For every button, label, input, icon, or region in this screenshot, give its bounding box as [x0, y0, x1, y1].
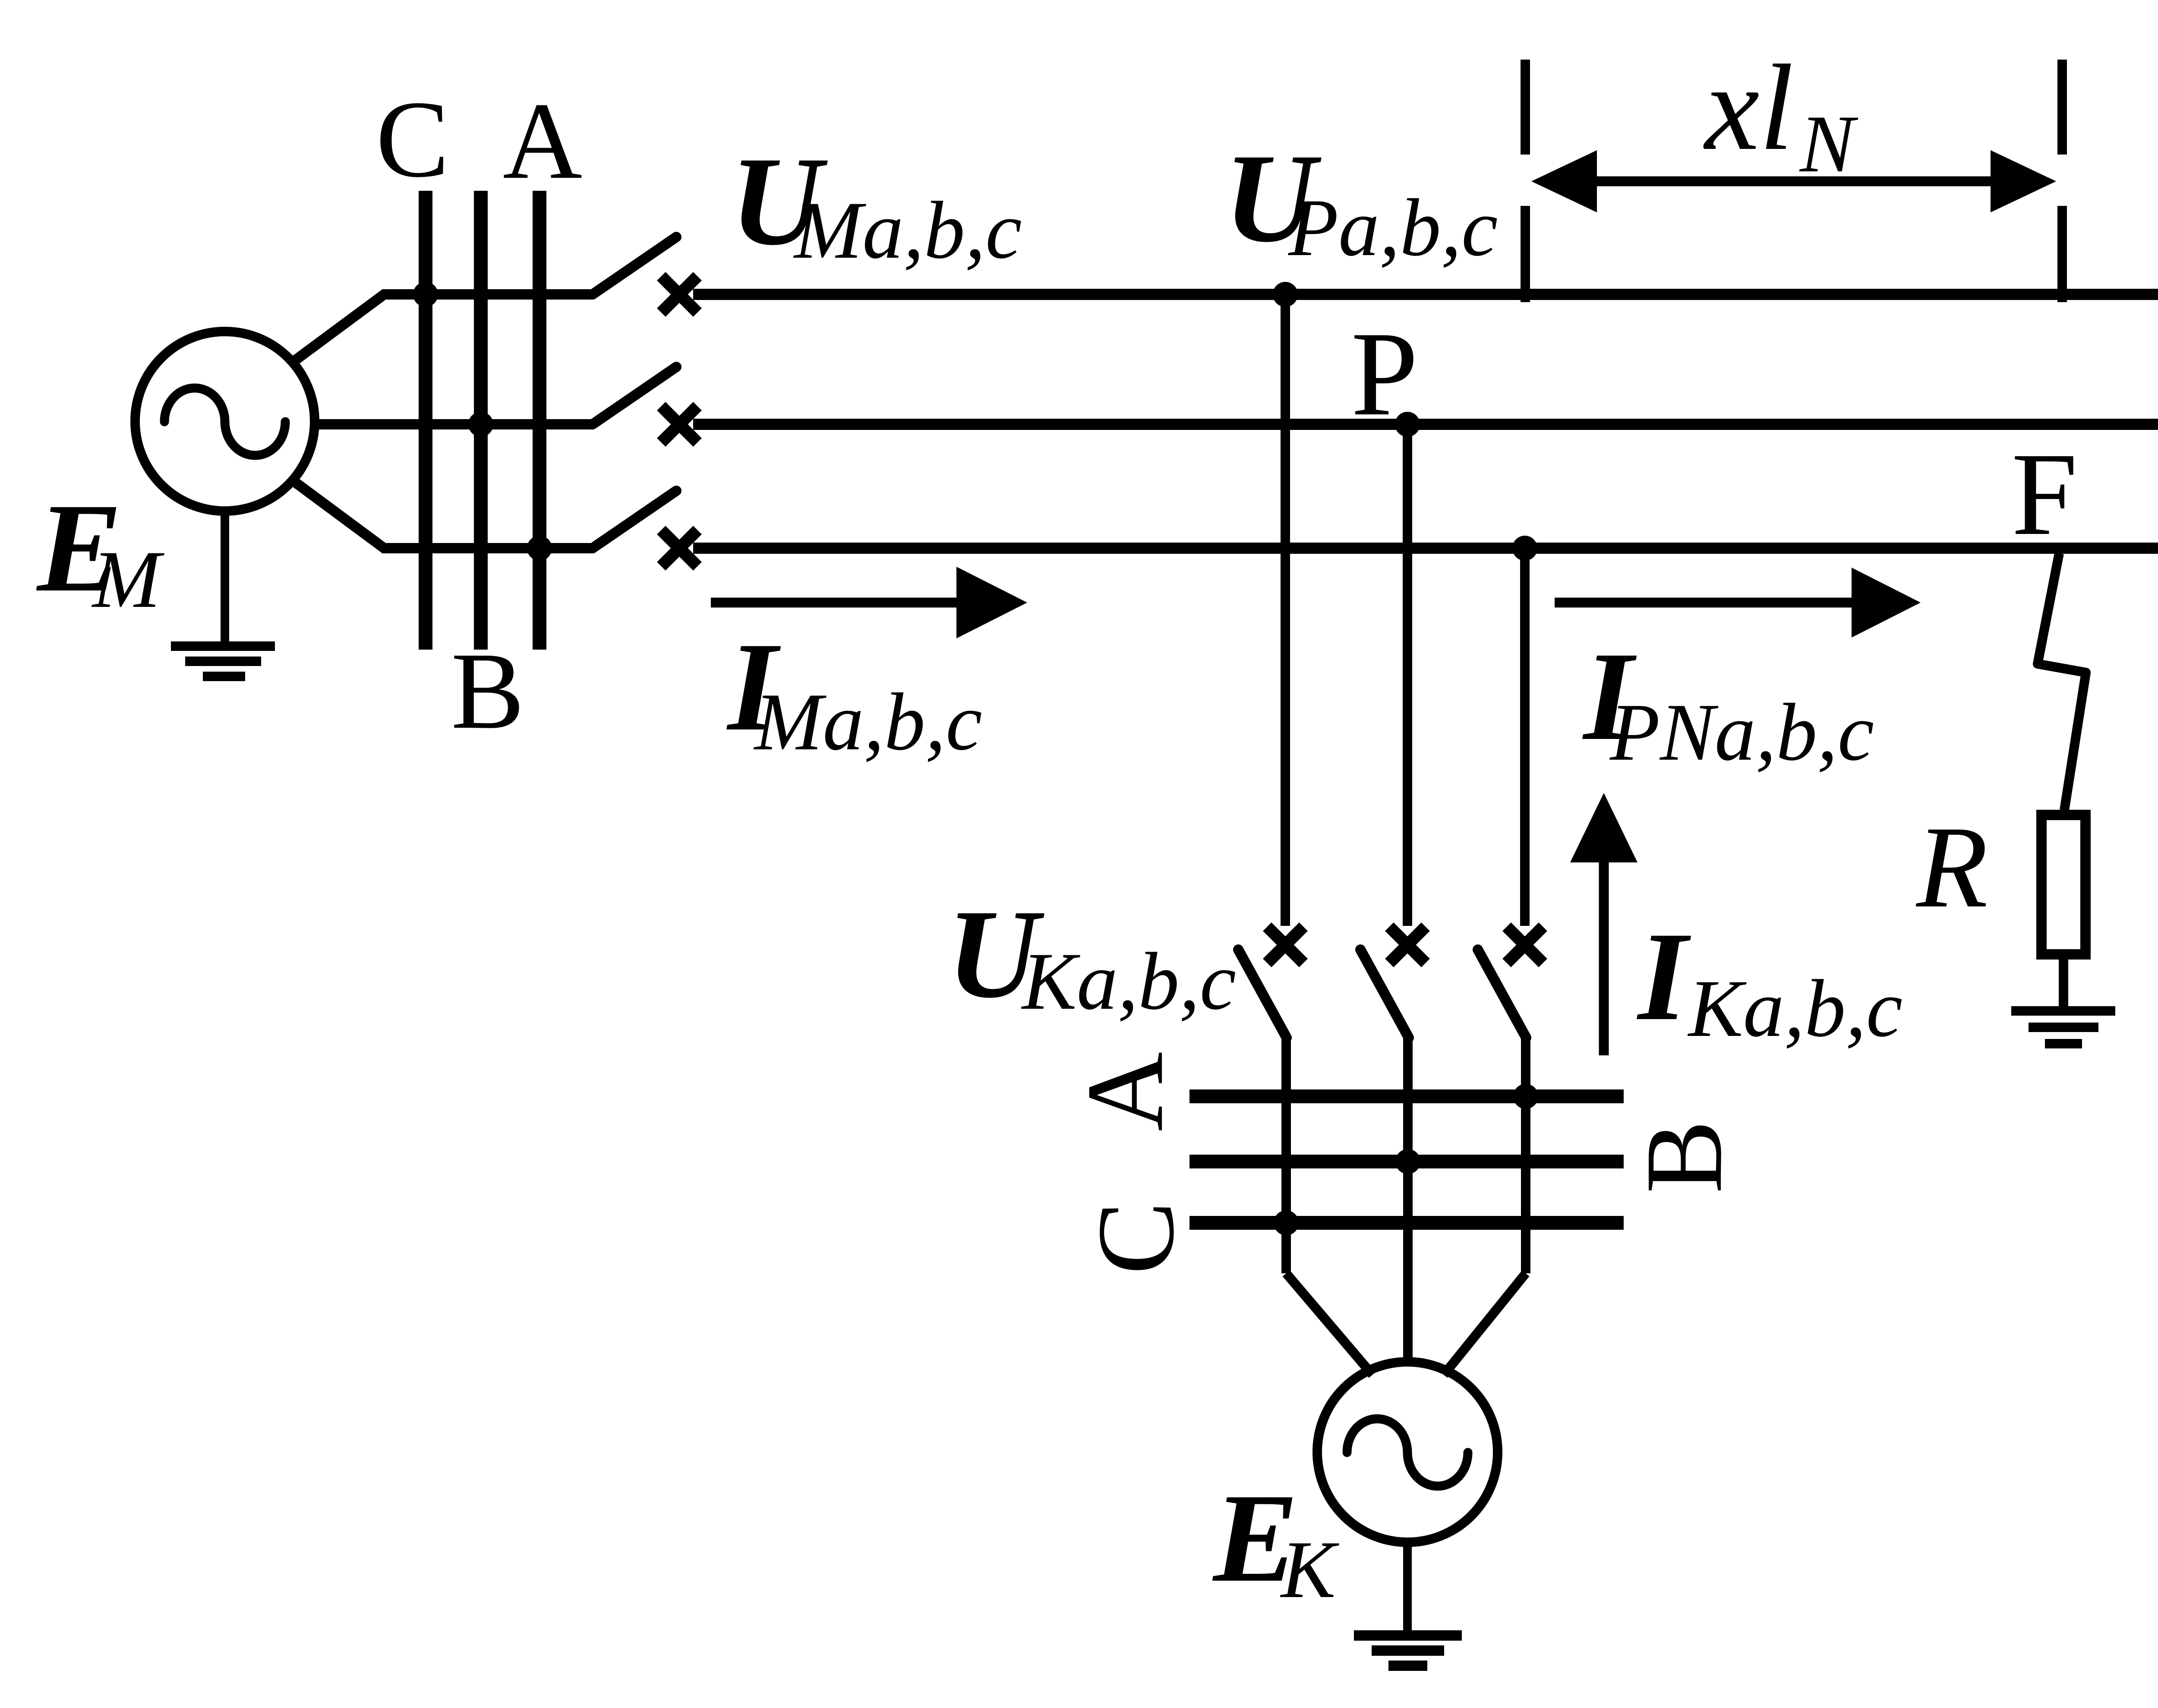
wire EM fan bottom: [289, 478, 593, 548]
switch blade Kb: [1360, 950, 1409, 1038]
node dot a-C (K): [1274, 1210, 1299, 1235]
wire phase a (M-N top line): [693, 289, 2158, 300]
arrow IMa,b,c: [711, 598, 962, 608]
breaker X Mb: [661, 406, 697, 442]
svg-text:Ma,b,c: Ma,b,c: [793, 185, 1022, 276]
svg-text:N: N: [1799, 99, 1858, 189]
ground EM stub: [221, 511, 229, 643]
busbar M middle: [474, 191, 488, 650]
switch blade Mc: [593, 491, 676, 548]
node dot P-c: [1512, 536, 1537, 561]
breaker X Ma: [661, 276, 697, 313]
svg-text:F: F: [2012, 429, 2078, 560]
breaker X Kc: [1507, 927, 1543, 963]
svg-text:B: B: [451, 630, 524, 752]
svg-text:Ka,b,c: Ka,b,c: [1687, 963, 1902, 1054]
wire Kb to K bus: [1403, 1038, 1413, 1366]
wire Ka to K bus: [1281, 1038, 1291, 1273]
ground EK bars: [1354, 1630, 1462, 1641]
wire phase c (M-N bottom line): [693, 543, 2158, 554]
wire Kc to K bus: [1521, 1038, 1530, 1273]
source EK circle: [1317, 1362, 1498, 1542]
ground EM bars: [171, 641, 275, 651]
busbar K C: [1189, 1216, 1624, 1230]
wire EK fan right: [1444, 1273, 1526, 1375]
svg-text:Ma,b,c: Ma,b,c: [753, 677, 982, 767]
dimension tick right (at F): [2057, 60, 2067, 155]
switch blade Kc: [1478, 950, 1526, 1038]
switch blade Ka: [1238, 950, 1287, 1038]
resistor R: [2041, 815, 2085, 954]
arrow IKa,b,c: [1599, 859, 1609, 1055]
node dot P-a: [1273, 282, 1298, 307]
wire EM fan top: [289, 294, 593, 365]
busbar M A: [533, 191, 546, 650]
ground R bars: [2011, 1006, 2115, 1016]
svg-text:A: A: [503, 80, 582, 202]
measurement branch vertical c (to K): [1520, 548, 1530, 926]
source EM circle: [135, 331, 315, 511]
ground EK stub: [1403, 1542, 1412, 1632]
svg-text:xl: xl: [1703, 39, 1794, 176]
svg-text:PNa,b,c: PNa,b,c: [1609, 687, 1874, 778]
wire EK fan left: [1286, 1273, 1372, 1375]
ground R stub: [2059, 954, 2068, 1007]
wire phase b (M-N middle line): [693, 419, 2158, 430]
svg-text:B: B: [1623, 1120, 1745, 1193]
node dot P-b: [1395, 412, 1420, 437]
busbar K A: [1189, 1089, 1624, 1103]
node dot c-A (K): [1513, 1084, 1538, 1109]
svg-text:C: C: [376, 79, 449, 200]
svg-text:P: P: [1351, 306, 1418, 441]
dimension arrow xlN: [1593, 177, 1996, 186]
switch blade Mb: [593, 367, 676, 424]
breaker X Kb: [1389, 927, 1426, 963]
svg-text:Ka,b,c: Ka,b,c: [1021, 936, 1236, 1027]
svg-text:A: A: [1064, 1052, 1186, 1131]
busbar M C: [419, 191, 432, 650]
svg-text:K: K: [1280, 1525, 1339, 1615]
source EK sine: [1347, 1419, 1468, 1486]
svg-text:C: C: [1075, 1201, 1197, 1275]
node dot c-A (M): [527, 536, 552, 561]
source EM sine: [164, 388, 285, 455]
svg-text:M: M: [91, 534, 164, 625]
arrow IPNa,b,c: [1555, 598, 1860, 608]
svg-text:I: I: [1636, 906, 1691, 1047]
measurement branch vertical b (to K): [1403, 424, 1412, 926]
switch blade Ma: [593, 237, 676, 294]
svg-text:R: R: [1915, 802, 1988, 932]
busbar K B: [1189, 1155, 1624, 1168]
breaker X Ka: [1267, 927, 1303, 963]
node dot b-B (K): [1395, 1149, 1420, 1174]
wire EM fan middle: [313, 419, 593, 429]
fault zigzag: [2038, 553, 2086, 810]
svg-text:Pa,b,c: Pa,b,c: [1287, 183, 1498, 273]
node dot a-C (M): [413, 282, 438, 307]
node dot b-B (M): [468, 412, 493, 437]
breaker X Mc: [661, 530, 697, 566]
dimension tick left (at P branch): [1521, 60, 1530, 155]
measurement branch vertical a (to K): [1281, 294, 1290, 926]
